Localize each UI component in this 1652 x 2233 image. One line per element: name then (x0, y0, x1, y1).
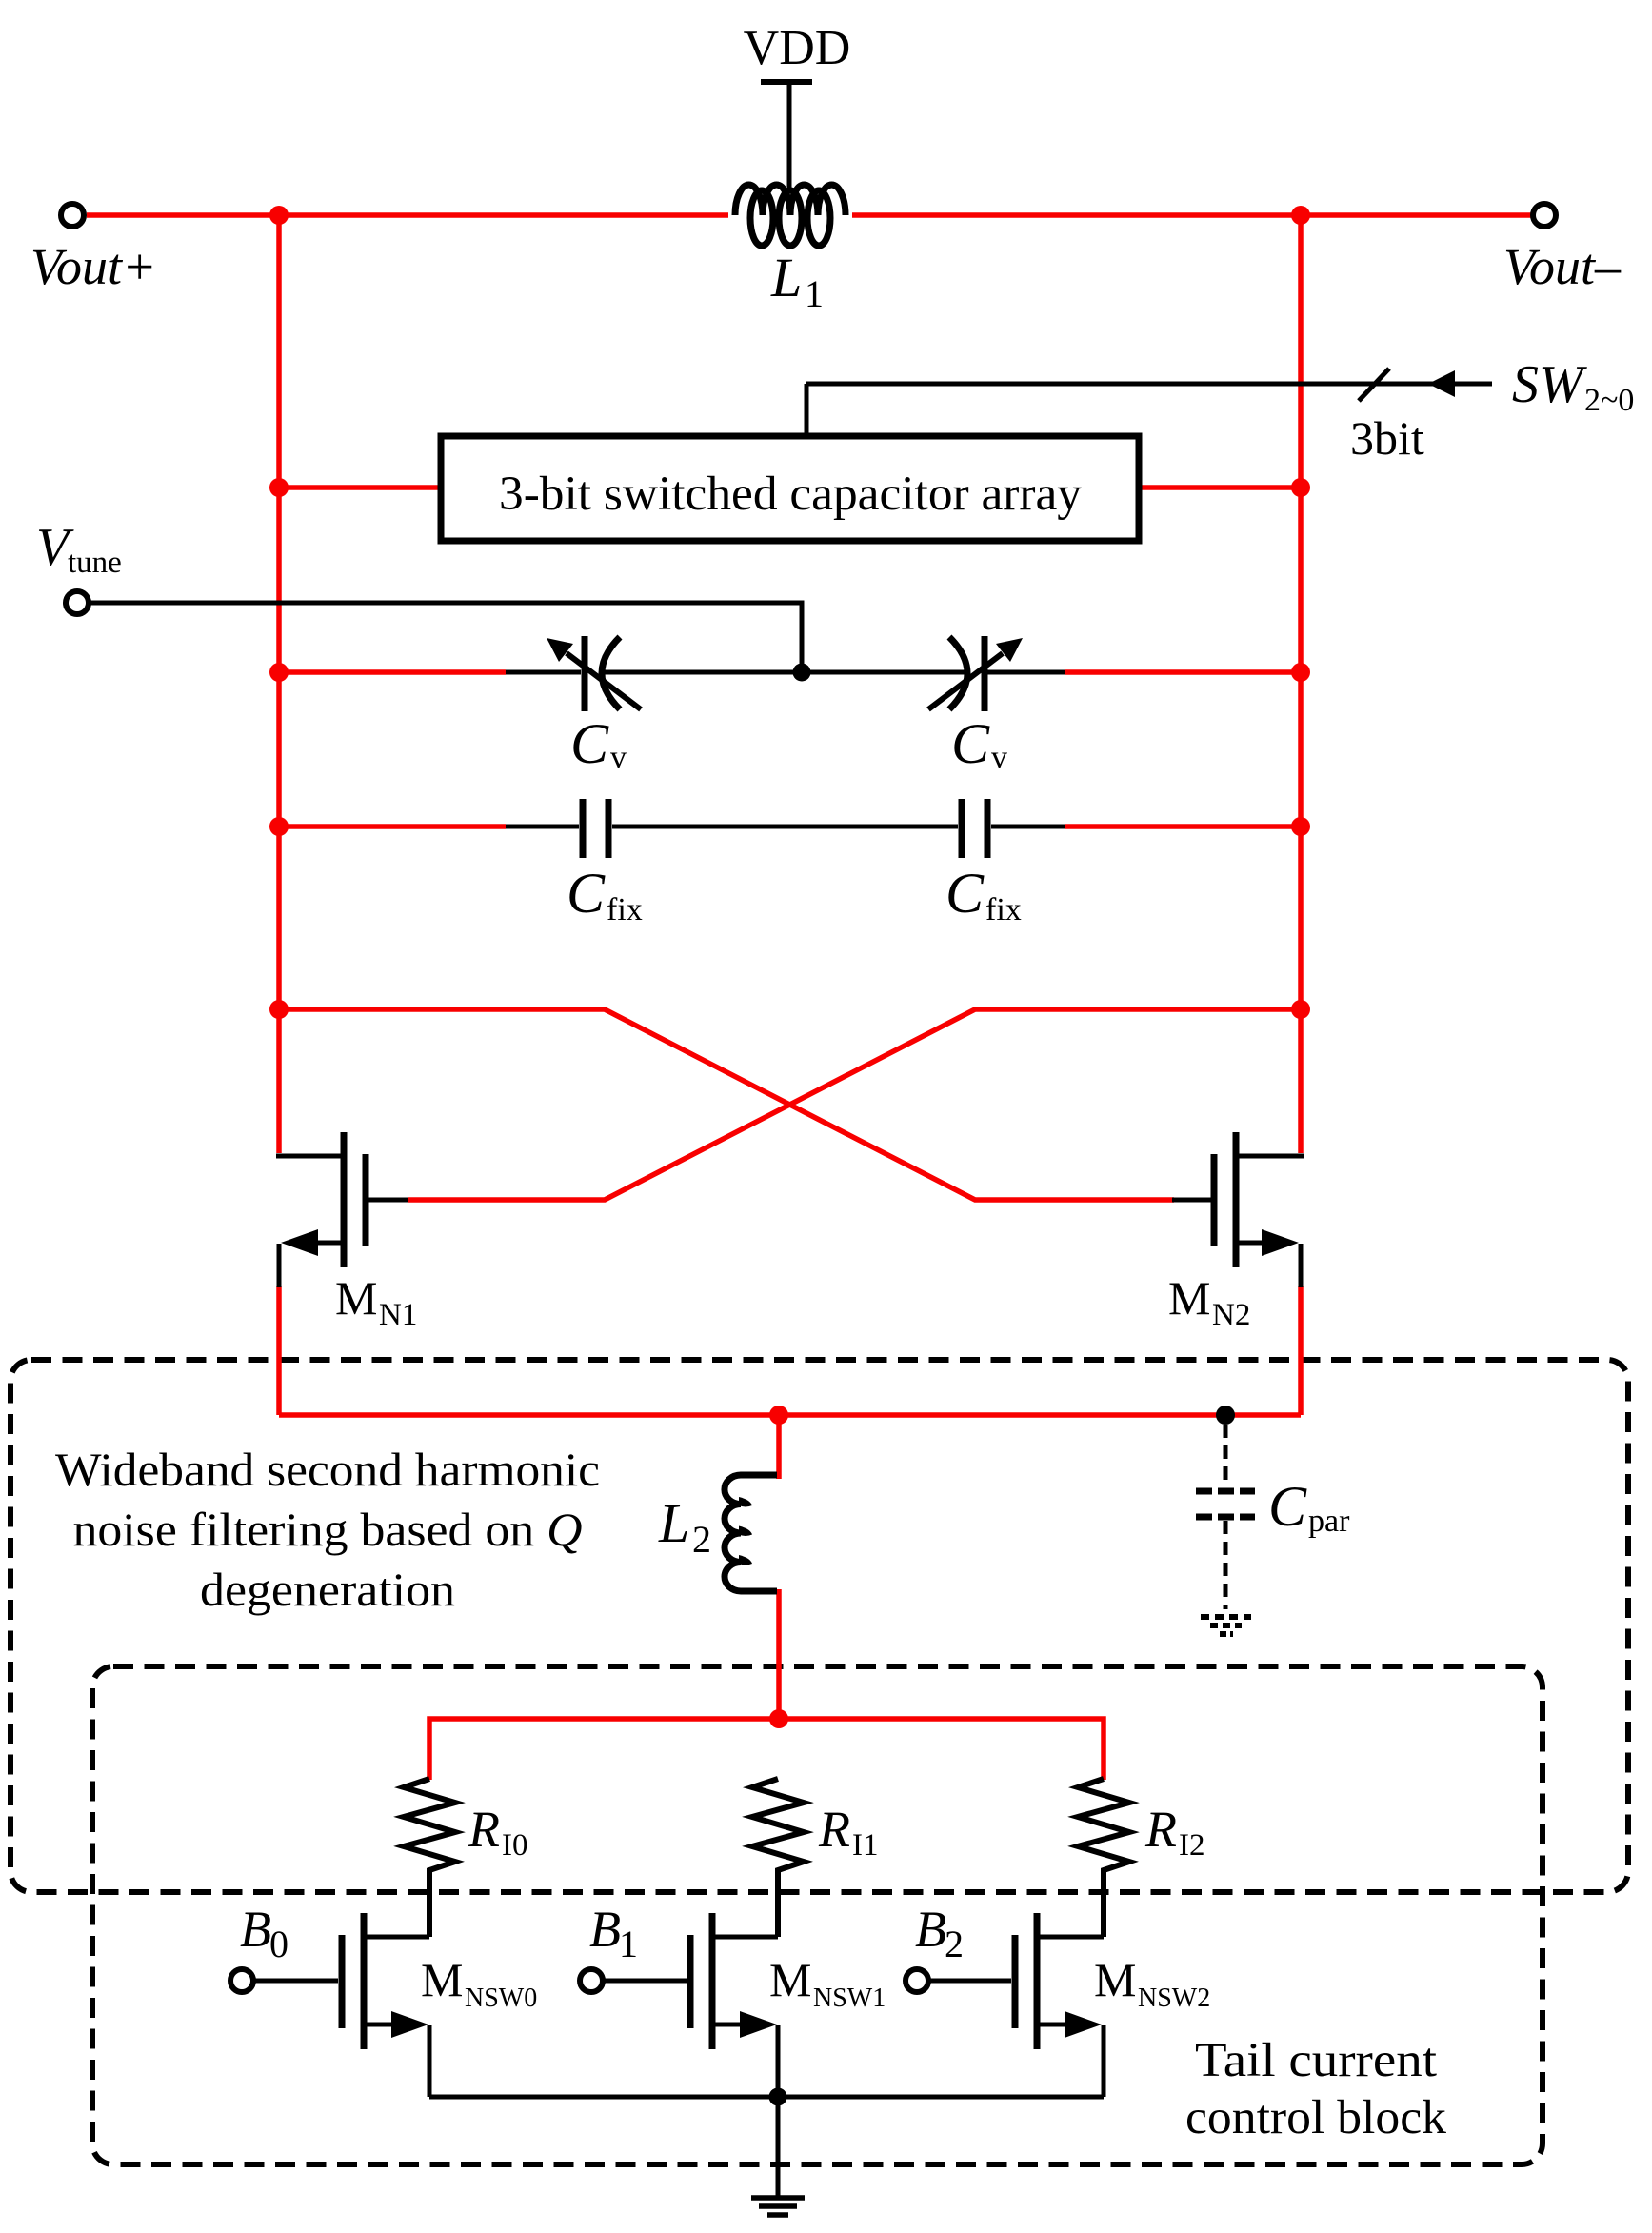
wire right tank rail (Vout- node vertical) (1298, 215, 1304, 1153)
block 3-bit switched capacitor array (441, 436, 1139, 541)
capacitor Cfix right (962, 799, 987, 858)
svg-text:SW: SW (1512, 355, 1587, 414)
svg-text:3bit: 3bit (1350, 411, 1424, 465)
svg-text:L: L (770, 247, 802, 309)
capacitor Cpar (parasitic, dashed) (1196, 1425, 1255, 1609)
inductor L2 (725, 1475, 777, 1591)
svg-text:N2: N2 (1212, 1298, 1250, 1332)
label MNSW2 (1094, 1953, 1210, 2013)
wire SW control bus with arrow (806, 384, 1492, 434)
svg-text:M: M (335, 1271, 377, 1325)
wire varactor row black segments (506, 670, 1065, 675)
svg-text:C: C (951, 712, 990, 775)
svg-text:2: 2 (692, 1518, 711, 1561)
svg-text:fix: fix (985, 892, 1022, 927)
terminal Vout- (1533, 204, 1556, 227)
svg-text:v: v (991, 740, 1007, 775)
resistor RI2 (1078, 1779, 1129, 1937)
label Cfix left (567, 862, 643, 927)
node Cfix row left junction (269, 817, 289, 836)
svg-text:2~0: 2~0 (1584, 383, 1634, 418)
box wideband second harmonic noise filtering (dashed) (10, 1360, 1628, 1892)
svg-text:control block: control block (1185, 2091, 1447, 2144)
svg-text:B: B (915, 1901, 946, 1958)
terminal Vout+ (61, 204, 84, 227)
svg-text:tune: tune (68, 546, 122, 580)
svg-text:C: C (567, 862, 606, 925)
svg-text:noise filtering based on Q: noise filtering based on Q (73, 1503, 583, 1556)
resistor RI1 (752, 1779, 804, 1937)
resistor RI0 (404, 1779, 455, 1937)
label VDD (744, 21, 851, 75)
svg-text:R: R (1144, 1801, 1177, 1858)
svg-text:Tail current: Tail current (1195, 2034, 1437, 2087)
wire MN1 source down (276, 1286, 282, 1415)
svg-text:3-bit switched capacitor array: 3-bit switched capacitor array (499, 468, 1083, 521)
wire top output rail right (L1 to Vout-) (852, 212, 1531, 218)
node varactor row right junction (1291, 663, 1310, 682)
svg-text:C: C (945, 862, 985, 925)
svg-text:I2: I2 (1179, 1828, 1205, 1863)
wire common source rail (279, 1412, 1301, 1418)
wire to ground (776, 2097, 781, 2198)
label RI2 (1144, 1801, 1205, 1863)
wire L2 bottom stub (776, 1589, 782, 1722)
transistor MNSW0 (342, 1913, 429, 2097)
node tail rail junction at L2 bottom (769, 1709, 788, 1728)
wire left tank rail (Vout+ node vertical) (276, 215, 282, 1153)
node common source junction (769, 2088, 787, 2106)
transistor MNSW2 (1015, 1913, 1104, 2097)
svg-text:N1: N1 (379, 1298, 417, 1332)
label Cfix right (945, 862, 1022, 927)
wire cross-coupling left drain to MN2 gate (279, 1009, 1174, 1200)
node cross-couple right junction (1291, 1000, 1310, 1019)
varactor Cv right (928, 636, 1023, 711)
node Vout- rail junction (1291, 206, 1310, 225)
power VDD symbol (761, 82, 812, 189)
label RI0 (468, 1801, 528, 1863)
label wideband noise filtering block (55, 1443, 600, 1616)
label Vout+ (30, 238, 156, 295)
ground main (751, 2198, 805, 2215)
node cap array right junction (1291, 478, 1310, 497)
node cross-couple left junction (269, 1000, 289, 1019)
wire Cfix row right (1065, 824, 1301, 829)
label MN1 (335, 1271, 417, 1332)
svg-text:M: M (769, 1953, 811, 2006)
svg-text:Vout+: Vout+ (30, 238, 156, 295)
svg-text:fix: fix (607, 892, 643, 927)
varactor Cv left (547, 636, 641, 711)
node varactor row left junction (269, 663, 289, 682)
wire top output rail left (Vout+ to L1) (87, 212, 728, 218)
svg-text:Vout–: Vout– (1503, 238, 1622, 295)
svg-text:degeneration: degeneration (200, 1563, 455, 1616)
wire L2 top stub (776, 1415, 782, 1479)
transistor MN1 (276, 1132, 408, 1287)
wire varactor row left (279, 669, 506, 675)
label 3bit (1350, 411, 1424, 465)
label MNSW0 (421, 1953, 537, 2013)
svg-text:v: v (610, 740, 627, 775)
label MNSW1 (769, 1953, 886, 2013)
node varactor midpoint junction (793, 664, 811, 682)
label L2 (658, 1492, 711, 1561)
svg-text:B: B (589, 1901, 621, 1958)
node tail node at L2 top (769, 1406, 788, 1425)
label Cpar (1268, 1475, 1350, 1539)
svg-text:B: B (240, 1901, 271, 1958)
transistor MNSW1 (690, 1913, 778, 2097)
wire MN2 source down (1298, 1286, 1304, 1415)
capacitor Cfix left (583, 799, 608, 858)
label tail current control block (1185, 2034, 1447, 2144)
label B0 (240, 1901, 289, 1965)
svg-text:I0: I0 (502, 1828, 528, 1863)
svg-text:NSW0: NSW0 (465, 1984, 537, 2013)
wire varactor row right (1065, 669, 1301, 675)
terminal B2 (906, 1969, 928, 1992)
terminal B1 (580, 1969, 603, 1992)
transistor MN2 (1172, 1132, 1304, 1287)
label Cv right (951, 712, 1007, 775)
label B1 (589, 1901, 638, 1965)
svg-text:R: R (818, 1801, 850, 1858)
svg-text:par: par (1308, 1504, 1350, 1539)
wire B1 to MNSW1 gate (603, 1979, 687, 1984)
label Vtune (36, 518, 122, 580)
svg-text:L: L (658, 1492, 689, 1554)
wire common source interconnect (429, 2095, 1104, 2100)
svg-text:M: M (1094, 1953, 1136, 2006)
wire Cfix row black segments (506, 825, 1065, 829)
label MN2 (1168, 1271, 1250, 1332)
svg-text:R: R (468, 1801, 500, 1858)
svg-text:C: C (1268, 1475, 1307, 1538)
node cap array left junction (269, 478, 289, 497)
svg-text:2: 2 (945, 1923, 964, 1965)
inductor L1 (735, 185, 846, 246)
label Vout- (1503, 238, 1622, 295)
label SW 2~0 (1512, 355, 1634, 418)
wire tail current rail (429, 1719, 1104, 1780)
svg-text:Wideband second harmonic: Wideband second harmonic (55, 1443, 600, 1496)
svg-text:NSW2: NSW2 (1138, 1984, 1210, 2013)
svg-text:M: M (1168, 1271, 1210, 1325)
node Cpar junction (1216, 1406, 1235, 1425)
wire Cfix row left (279, 824, 506, 829)
svg-text:NSW1: NSW1 (813, 1984, 886, 2013)
terminal B0 (230, 1969, 253, 1992)
arrowhead on SW bus (1428, 370, 1455, 397)
svg-text:M: M (421, 1953, 463, 2006)
svg-text:C: C (570, 712, 609, 775)
bus width slash 3bit (1359, 369, 1389, 401)
label B2 (915, 1901, 964, 1965)
node Cfix row right junction (1291, 817, 1310, 836)
svg-text:VDD: VDD (744, 21, 851, 75)
svg-text:1: 1 (619, 1923, 638, 1965)
terminal Vtune (66, 591, 89, 614)
wire right stub to capacitor array (1139, 485, 1301, 490)
svg-text:0: 0 (269, 1923, 289, 1965)
box tail current control block (dashed) (92, 1666, 1543, 2164)
wire cross-coupling right drain to MN1 gate (408, 1009, 1301, 1200)
wire Vtune to varactor midpoint (90, 603, 802, 667)
label Cv left (570, 712, 627, 775)
node Vout+ rail junction (269, 206, 289, 225)
wire left stub to capacitor array (279, 485, 441, 490)
label RI1 (818, 1801, 879, 1863)
wire B0 to MNSW0 gate (253, 1979, 338, 1984)
svg-text:1: 1 (805, 272, 824, 315)
svg-text:I1: I1 (852, 1828, 879, 1863)
wire B2 to MNSW2 gate (928, 1979, 1011, 1984)
label L1 (770, 247, 824, 315)
ground for Cpar (dotted) (1201, 1617, 1251, 1634)
